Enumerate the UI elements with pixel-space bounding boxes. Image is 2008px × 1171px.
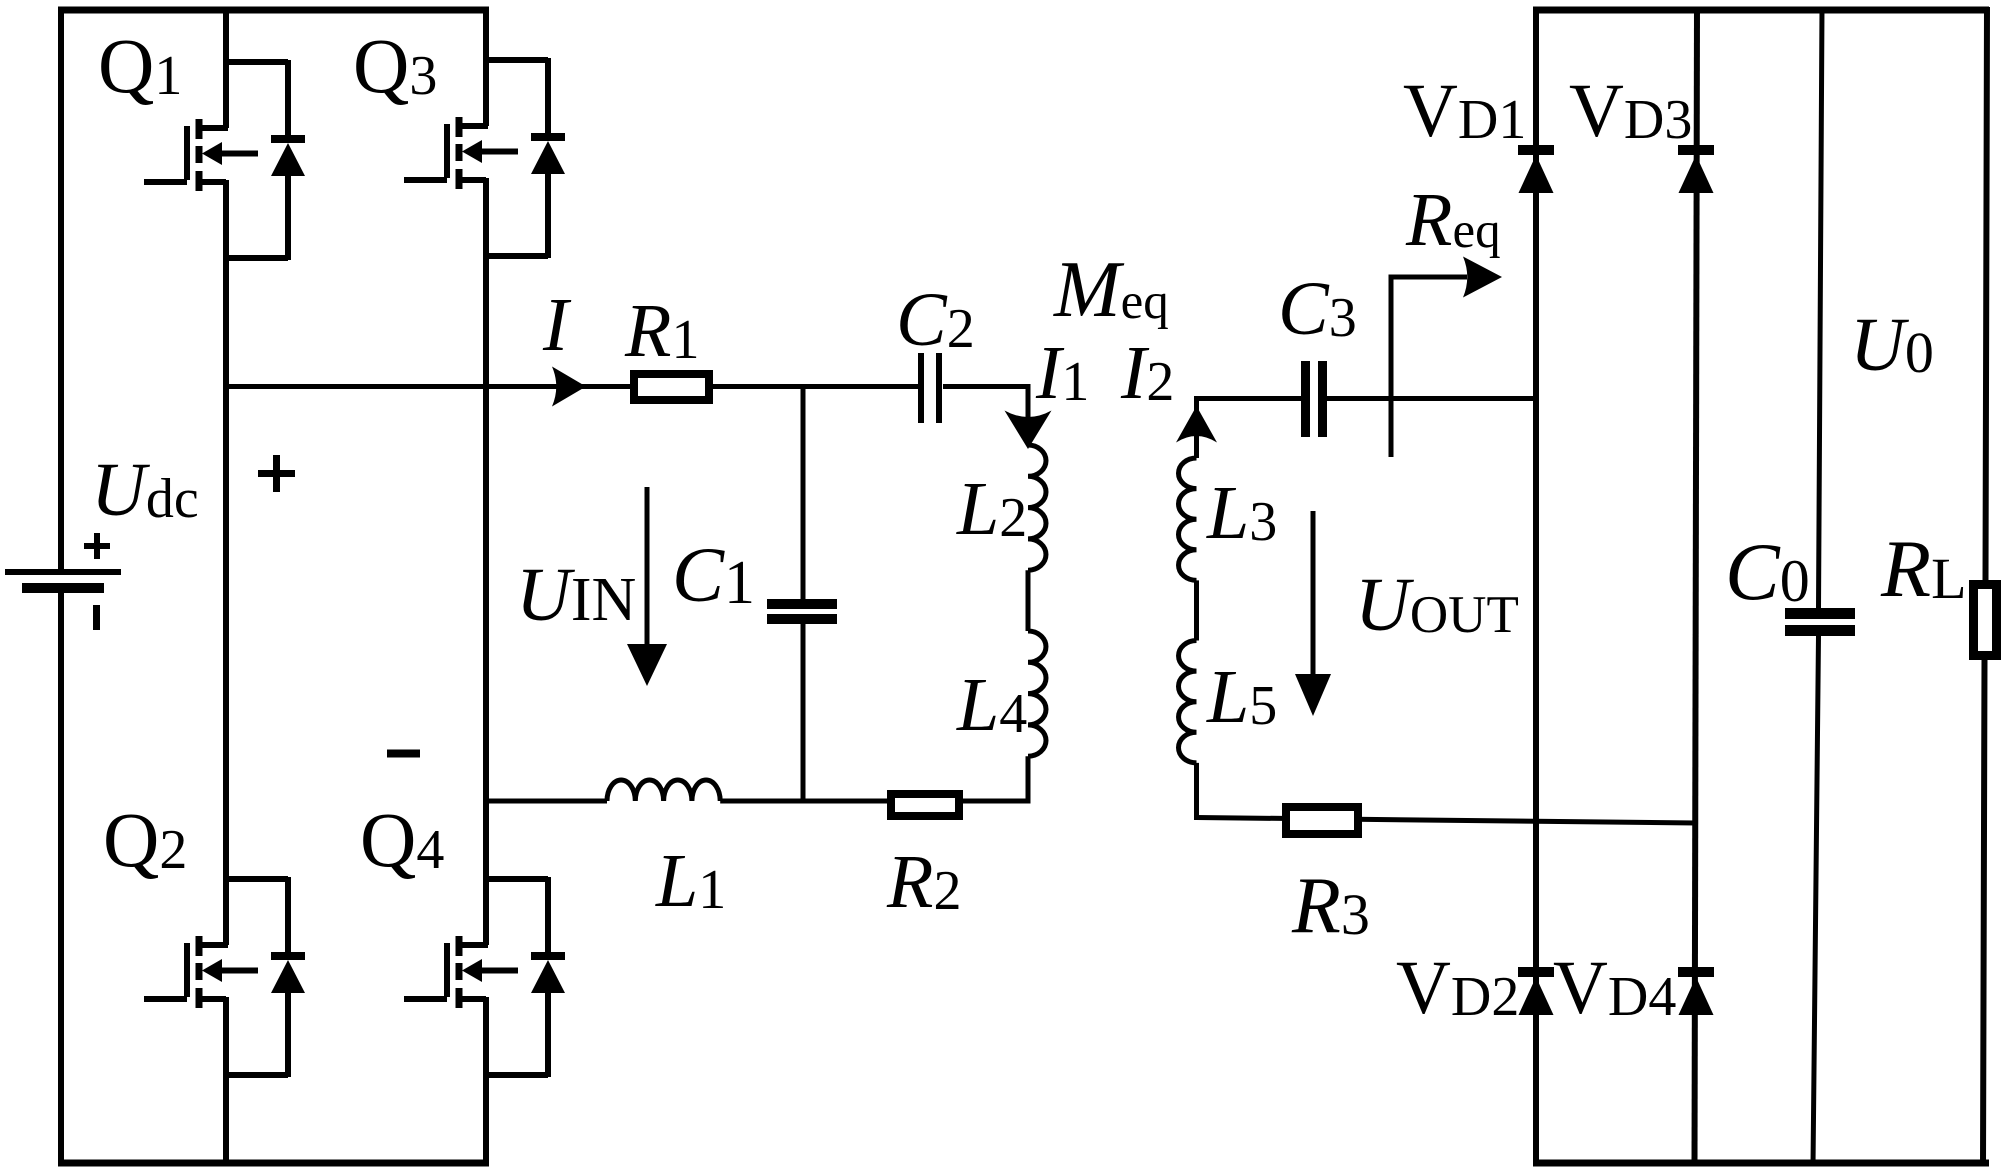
svg-text:UIN: UIN xyxy=(516,553,636,637)
svg-text:I: I xyxy=(542,283,572,367)
